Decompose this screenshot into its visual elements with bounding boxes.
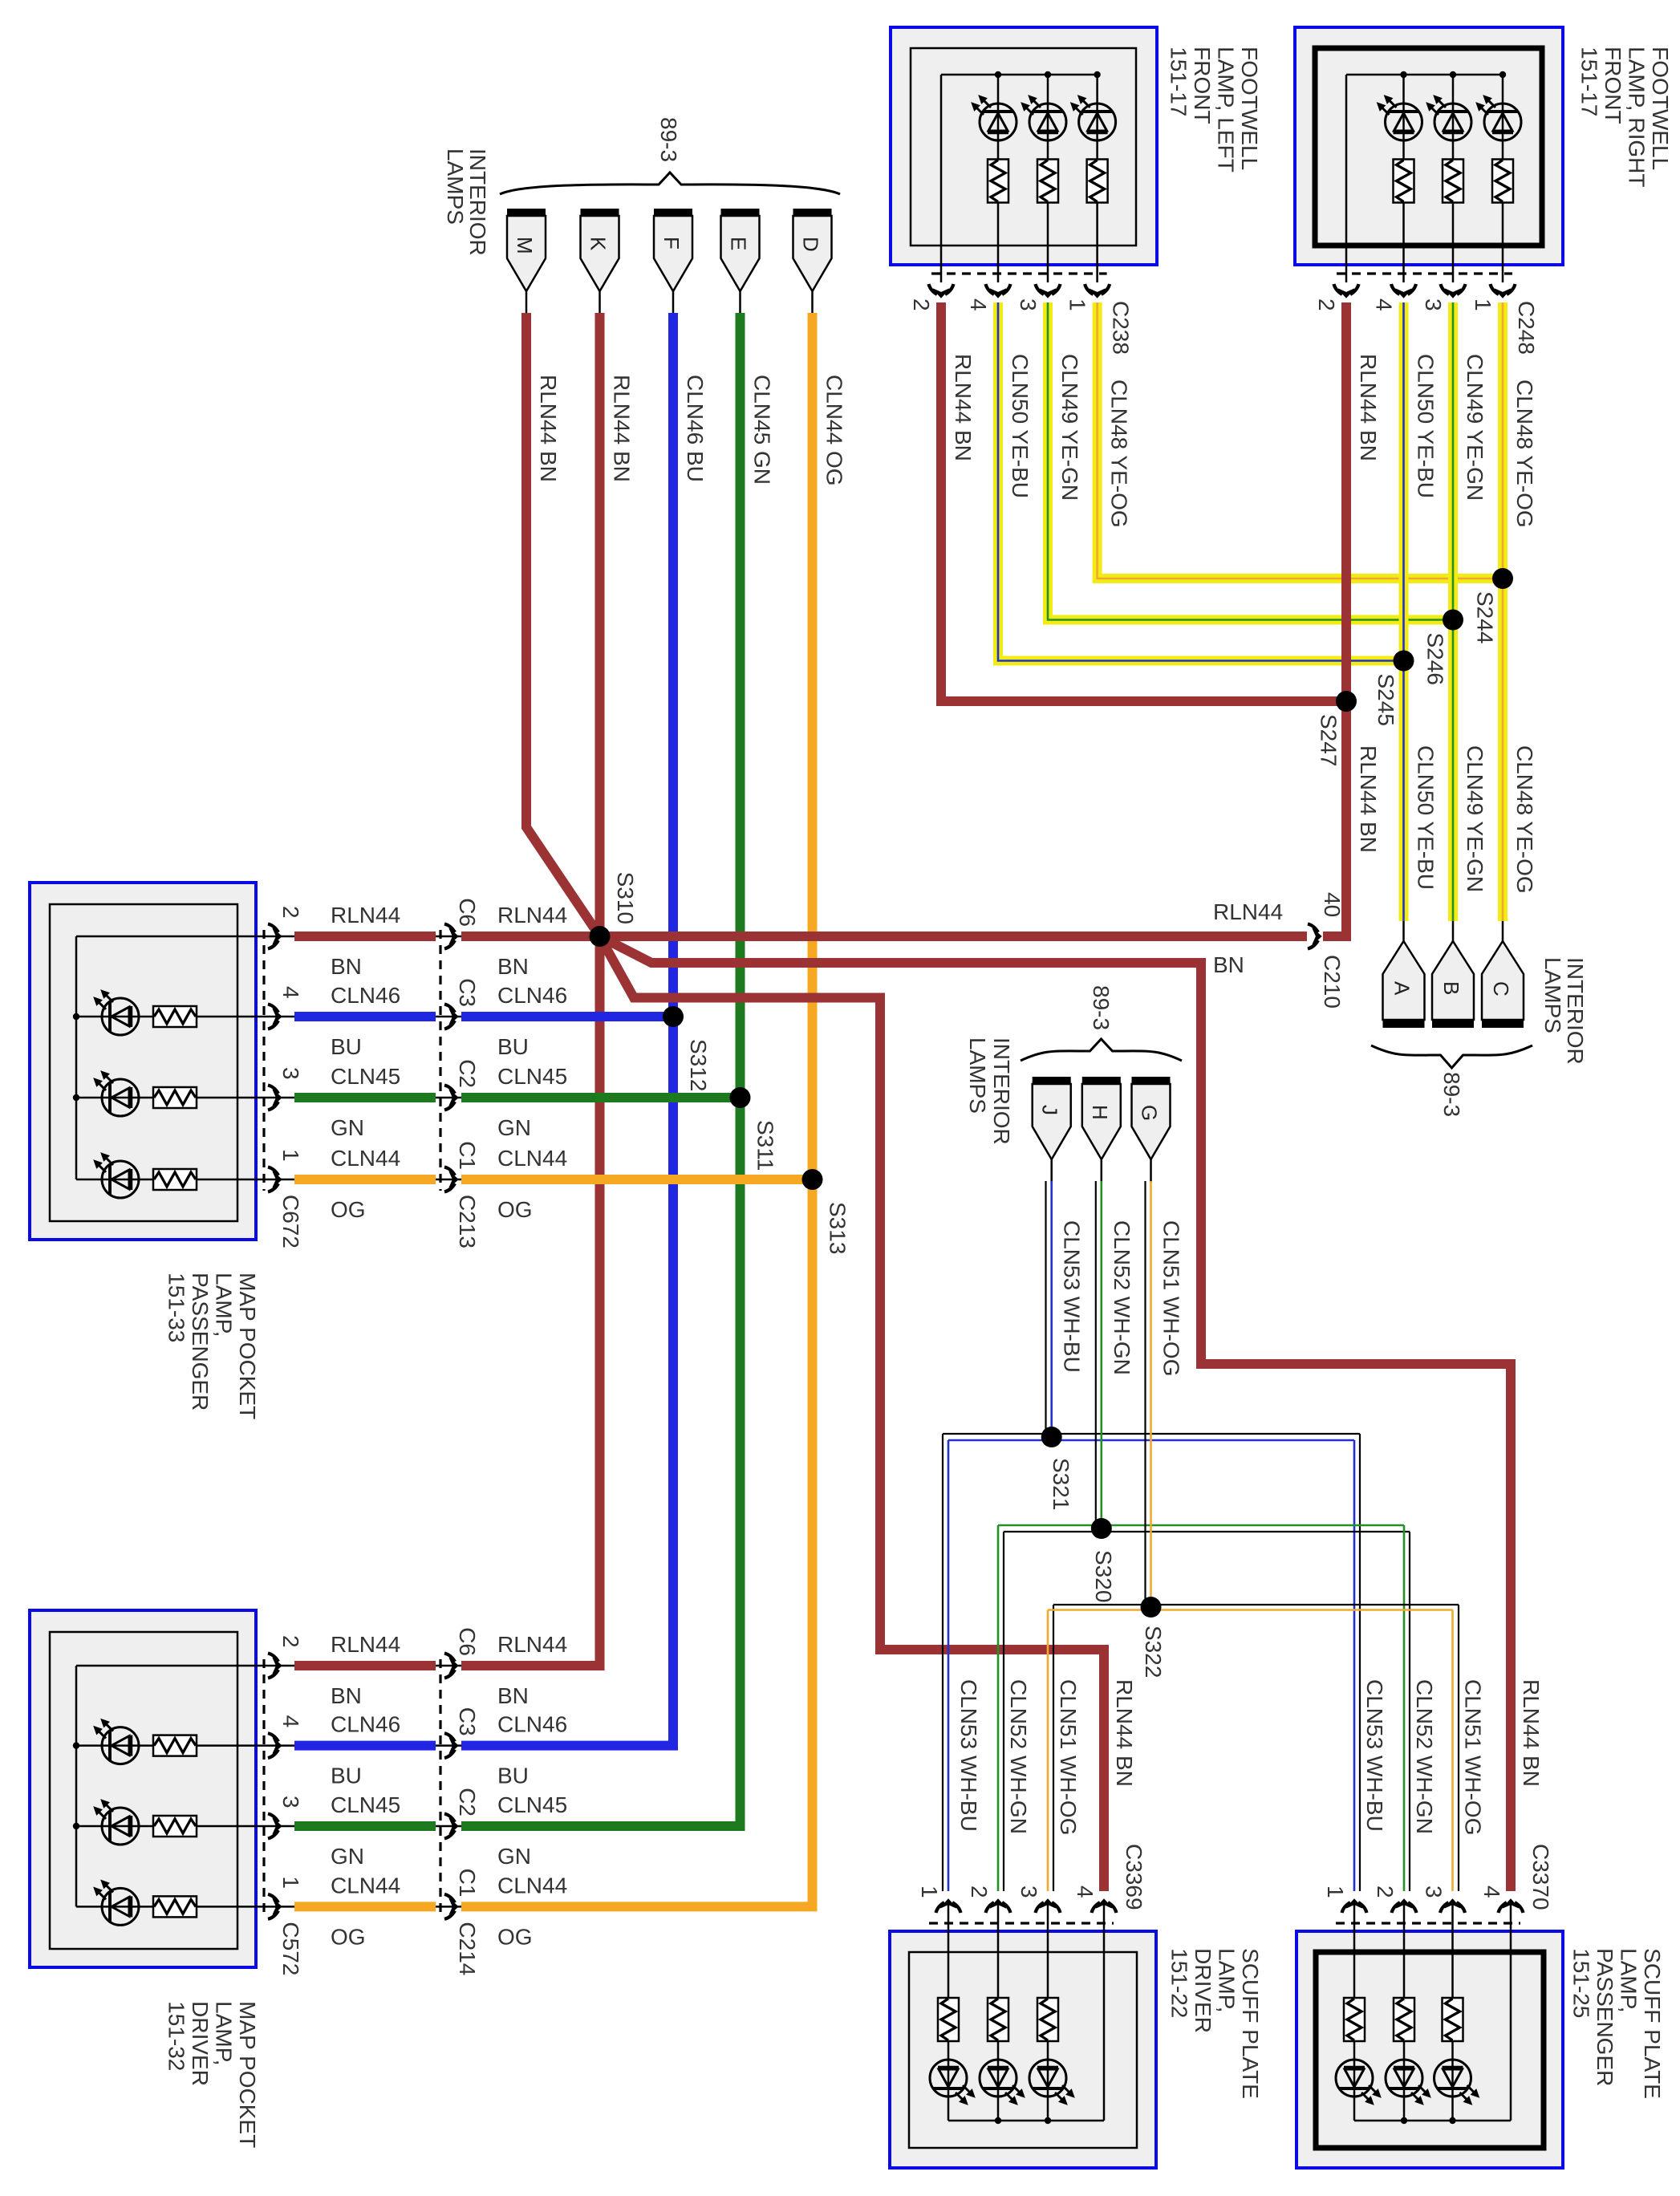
svg-text:CLN53 WH-BU: CLN53 WH-BU <box>956 1679 981 1832</box>
svg-text:4: 4 <box>1073 1885 1098 1898</box>
svg-text:LAMP, RIGHT: LAMP, RIGHT <box>1625 47 1650 187</box>
svg-text:F: F <box>659 237 684 250</box>
svg-text:RLN44: RLN44 <box>497 903 567 928</box>
svg-text:LAMP,: LAMP, <box>212 2001 237 2065</box>
svg-text:CLN52 WH-GN: CLN52 WH-GN <box>1110 1220 1134 1375</box>
svg-text:CLN44 OG: CLN44 OG <box>822 375 847 486</box>
svg-text:MAP POCKET: MAP POCKET <box>235 2001 260 2148</box>
svg-text:BN: BN <box>331 954 362 979</box>
svg-text:C3: C3 <box>455 978 480 1007</box>
svg-text:S312: S312 <box>686 1039 711 1091</box>
svg-text:CLN48 YE-OG: CLN48 YE-OG <box>1512 745 1537 894</box>
svg-text:2: 2 <box>278 906 303 919</box>
svg-text:CLN46: CLN46 <box>331 983 400 1008</box>
svg-text:4: 4 <box>278 986 303 999</box>
svg-text:CLN45: CLN45 <box>331 1064 400 1089</box>
svg-text:LAMP,: LAMP, <box>1215 1948 1240 2012</box>
svg-text:CLN51 WH-OG: CLN51 WH-OG <box>1461 1679 1486 1835</box>
svg-text:3: 3 <box>278 1067 303 1080</box>
svg-text:3: 3 <box>1017 1885 1041 1898</box>
svg-text:C6: C6 <box>455 898 480 927</box>
svg-text:C213: C213 <box>455 1195 480 1248</box>
svg-text:CLN44: CLN44 <box>331 1146 400 1171</box>
svg-text:DRIVER: DRIVER <box>1191 1948 1215 2033</box>
svg-text:CLN52 WH-GN: CLN52 WH-GN <box>1006 1679 1031 1834</box>
svg-text:C2: C2 <box>455 1788 480 1816</box>
svg-text:RLN44 BN: RLN44 BN <box>1112 1679 1137 1787</box>
svg-text:CLN48 YE-OG: CLN48 YE-OG <box>1512 380 1537 528</box>
svg-text:RLN44 BN: RLN44 BN <box>951 354 976 461</box>
svg-text:BU: BU <box>331 1034 362 1059</box>
svg-text:INTERIOR: INTERIOR <box>989 1037 1014 1145</box>
svg-text:M: M <box>513 237 537 254</box>
svg-text:CLN44: CLN44 <box>497 1873 567 1898</box>
svg-text:151-17: 151-17 <box>1577 47 1602 116</box>
svg-text:CLN44: CLN44 <box>497 1146 567 1171</box>
svg-text:A: A <box>1390 981 1414 996</box>
svg-text:C214: C214 <box>455 1922 480 1975</box>
svg-text:2: 2 <box>1314 298 1339 311</box>
svg-text:S247: S247 <box>1317 714 1341 766</box>
svg-text:S311: S311 <box>753 1120 778 1171</box>
svg-text:S310: S310 <box>613 872 638 924</box>
svg-text:BN: BN <box>497 1683 529 1708</box>
svg-text:C672: C672 <box>278 1195 303 1248</box>
svg-text:BN: BN <box>1213 952 1244 977</box>
svg-text:4: 4 <box>278 1715 303 1728</box>
svg-text:GN: GN <box>497 1115 531 1140</box>
svg-text:CLN46: CLN46 <box>497 1712 567 1737</box>
svg-text:K: K <box>586 237 611 251</box>
svg-text:89-3: 89-3 <box>656 117 681 162</box>
svg-text:OG: OG <box>331 1197 366 1222</box>
svg-text:CLN45: CLN45 <box>331 1792 400 1817</box>
svg-text:1: 1 <box>1065 298 1090 311</box>
svg-text:C210: C210 <box>1320 955 1345 1009</box>
svg-text:CLN53 WH-BU: CLN53 WH-BU <box>1060 1220 1085 1373</box>
svg-text:3: 3 <box>1016 298 1041 311</box>
svg-text:RLN44: RLN44 <box>497 1632 567 1657</box>
svg-text:LAMP, LEFT: LAMP, LEFT <box>1214 47 1239 173</box>
svg-text:C238: C238 <box>1109 301 1134 355</box>
svg-text:3: 3 <box>278 1796 303 1808</box>
svg-text:C6: C6 <box>455 1627 480 1656</box>
svg-text:RLN44 BN: RLN44 BN <box>536 375 561 482</box>
svg-text:2: 2 <box>278 1635 303 1648</box>
svg-text:S320: S320 <box>1091 1550 1116 1602</box>
svg-text:PASSENGER: PASSENGER <box>188 1273 213 1411</box>
svg-text:BU: BU <box>497 1034 529 1059</box>
svg-text:CLN45: CLN45 <box>497 1064 567 1089</box>
svg-text:CLN50 YE-BU: CLN50 YE-BU <box>1414 745 1439 890</box>
svg-text:C248: C248 <box>1514 301 1539 355</box>
svg-text:MAP POCKET: MAP POCKET <box>235 1273 260 1419</box>
svg-text:GN: GN <box>331 1844 364 1869</box>
svg-text:CLN53 WH-BU: CLN53 WH-BU <box>1362 1679 1387 1832</box>
svg-text:CLN50 YE-BU: CLN50 YE-BU <box>1414 354 1439 498</box>
svg-text:SCUFF PLATE: SCUFF PLATE <box>1238 1948 1263 2099</box>
svg-text:4: 4 <box>1372 298 1397 311</box>
svg-text:C3370: C3370 <box>1528 1844 1553 1910</box>
svg-text:CLN51 WH-OG: CLN51 WH-OG <box>1159 1220 1184 1376</box>
svg-text:RLN44: RLN44 <box>331 1632 400 1657</box>
svg-text:RLN44: RLN44 <box>1213 899 1283 924</box>
svg-text:BN: BN <box>331 1683 362 1708</box>
svg-text:J: J <box>1038 1105 1062 1115</box>
svg-text:CLN44: CLN44 <box>331 1873 400 1898</box>
svg-text:OG: OG <box>331 1924 366 1949</box>
svg-text:RLN44 BN: RLN44 BN <box>610 375 635 482</box>
svg-text:RLN44: RLN44 <box>331 903 400 928</box>
svg-text:CLN46: CLN46 <box>497 983 567 1008</box>
svg-text:RLN44 BN: RLN44 BN <box>1356 745 1381 853</box>
svg-text:CLN49 YE-GN: CLN49 YE-GN <box>1463 354 1487 501</box>
svg-text:RLN44 BN: RLN44 BN <box>1356 354 1381 461</box>
svg-text:RLN44 BN: RLN44 BN <box>1519 1679 1544 1787</box>
svg-text:SCUFF PLATE: SCUFF PLATE <box>1640 1948 1665 2099</box>
svg-text:2: 2 <box>909 298 934 311</box>
svg-text:CLN45 GN: CLN45 GN <box>750 375 775 485</box>
svg-text:CLN49 YE-GN: CLN49 YE-GN <box>1057 354 1082 501</box>
svg-text:DRIVER: DRIVER <box>188 2001 213 2086</box>
svg-text:G: G <box>1138 1105 1162 1121</box>
svg-text:GN: GN <box>331 1115 364 1140</box>
svg-text:CLN52 WH-GN: CLN52 WH-GN <box>1412 1679 1437 1834</box>
svg-text:CLN48 YE-OG: CLN48 YE-OG <box>1107 380 1132 528</box>
svg-text:OG: OG <box>497 1197 533 1222</box>
svg-text:151-17: 151-17 <box>1167 47 1191 116</box>
svg-text:3: 3 <box>1422 1885 1447 1898</box>
svg-text:C2: C2 <box>455 1059 480 1088</box>
svg-text:C572: C572 <box>278 1922 303 1975</box>
svg-text:LAMP,: LAMP, <box>212 1273 237 1337</box>
svg-text:BU: BU <box>497 1764 529 1788</box>
svg-text:INTERIOR: INTERIOR <box>1563 957 1588 1065</box>
svg-text:1: 1 <box>917 1885 942 1898</box>
svg-text:1: 1 <box>278 1149 303 1162</box>
svg-text:PASSENGER: PASSENGER <box>1593 1948 1617 2086</box>
svg-text:S245: S245 <box>1374 674 1398 726</box>
svg-text:C1: C1 <box>455 1141 480 1170</box>
svg-text:LAMPS: LAMPS <box>1540 957 1565 1033</box>
svg-text:151-32: 151-32 <box>164 2001 189 2071</box>
svg-text:GN: GN <box>497 1844 531 1869</box>
svg-text:B: B <box>1439 981 1463 995</box>
svg-text:FRONT: FRONT <box>1601 47 1625 124</box>
svg-text:H: H <box>1088 1105 1112 1120</box>
svg-text:BU: BU <box>331 1764 362 1788</box>
svg-text:40: 40 <box>1320 892 1345 917</box>
svg-text:CLN45: CLN45 <box>497 1792 567 1817</box>
svg-text:INTERIOR: INTERIOR <box>465 148 490 256</box>
svg-text:FRONT: FRONT <box>1190 47 1215 124</box>
svg-text:2: 2 <box>967 1885 992 1898</box>
svg-text:E: E <box>727 237 751 250</box>
svg-text:LAMPS: LAMPS <box>443 148 468 225</box>
svg-text:C3369: C3369 <box>1122 1844 1146 1910</box>
svg-text:C: C <box>1489 981 1513 997</box>
svg-text:FOOTWELL: FOOTWELL <box>1648 47 1673 170</box>
svg-text:89-3: 89-3 <box>1089 985 1114 1030</box>
svg-text:151-25: 151-25 <box>1569 1948 1594 2018</box>
svg-text:3: 3 <box>1421 298 1446 311</box>
svg-text:CLN46 BU: CLN46 BU <box>683 375 708 482</box>
svg-text:1: 1 <box>278 1876 303 1889</box>
svg-text:CLN51 WH-OG: CLN51 WH-OG <box>1056 1679 1081 1835</box>
svg-text:LAMPS: LAMPS <box>965 1037 990 1114</box>
svg-text:OG: OG <box>497 1924 533 1949</box>
svg-text:4: 4 <box>966 298 991 311</box>
svg-text:4: 4 <box>1479 1885 1504 1898</box>
svg-text:2: 2 <box>1373 1885 1398 1898</box>
svg-text:S322: S322 <box>1141 1626 1166 1678</box>
svg-text:C3: C3 <box>455 1707 480 1736</box>
svg-text:D: D <box>799 237 823 252</box>
svg-text:FOOTWELL: FOOTWELL <box>1237 47 1262 170</box>
svg-text:1: 1 <box>1471 298 1495 311</box>
svg-text:89-3: 89-3 <box>1439 1072 1464 1117</box>
svg-text:BN: BN <box>497 954 529 979</box>
svg-text:LAMP,: LAMP, <box>1617 1948 1641 2012</box>
svg-text:CLN50 YE-BU: CLN50 YE-BU <box>1008 354 1033 498</box>
svg-text:C1: C1 <box>455 1869 480 1898</box>
svg-text:CLN49 YE-GN: CLN49 YE-GN <box>1463 745 1487 892</box>
svg-text:S321: S321 <box>1049 1458 1073 1510</box>
svg-text:S313: S313 <box>826 1202 850 1254</box>
svg-text:S244: S244 <box>1473 591 1498 643</box>
svg-text:1: 1 <box>1323 1885 1348 1898</box>
svg-text:151-33: 151-33 <box>164 1273 189 1342</box>
svg-text:CLN46: CLN46 <box>331 1712 400 1737</box>
svg-text:151-22: 151-22 <box>1167 1948 1192 2018</box>
svg-text:S246: S246 <box>1423 633 1448 685</box>
